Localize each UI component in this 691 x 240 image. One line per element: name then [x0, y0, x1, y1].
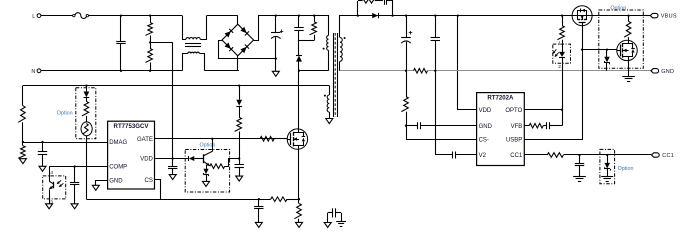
diode D-opt1 — [86, 86, 88, 92]
wire option1 to CS line — [86, 136, 88, 200]
svg-text:OPTO: OPTO — [505, 108, 522, 114]
resistor R-snub — [357, 1, 359, 16]
ground C-vdd1 — [169, 175, 176, 180]
junction dot snubber left — [357, 14, 359, 16]
junction dot opto R top — [561, 14, 563, 16]
ground C-vdd2 — [236, 176, 243, 181]
resistor R-opt1 — [86, 98, 88, 102]
capacitor C-cs — [258, 199, 260, 206]
junction dot Cout — [405, 14, 407, 16]
resistor R-sense — [298, 199, 300, 203]
bridge diode D3 (left-bottom) — [225, 43, 231, 49]
svg-text:V2: V2 — [479, 153, 487, 159]
capacitor C-bulk electrolytic — [275, 16, 277, 33]
svg-text:2: 2 — [558, 64, 561, 70]
resistor R-cs2 — [406, 71, 408, 97]
capacitor C-vdd2 — [239, 159, 241, 165]
svg-text:GND: GND — [109, 179, 123, 185]
wire startup tap — [150, 42, 173, 44]
capacitor C-v2 — [435, 154, 452, 156]
choke core — [185, 43, 201, 45]
svg-text:GND: GND — [479, 124, 493, 130]
resistor R1 upper — [150, 16, 152, 23]
junction dot zener gate — [606, 48, 608, 50]
op-amp U3 RT7202A box — [477, 93, 525, 166]
transistor Q-opt3 — [203, 154, 205, 163]
wire gate — [274, 138, 287, 140]
resistor R-dis — [627, 14, 629, 16]
choke top winding — [183, 16, 186, 40]
svg-text:CC1: CC1 — [510, 153, 523, 159]
capacitor C-o2 — [435, 16, 437, 38]
svg-text:N: N — [31, 69, 35, 75]
zener Z-opt3 — [206, 165, 208, 169]
wire L to fuse — [41, 15, 73, 17]
earth ground Z-cc1 — [601, 176, 613, 178]
transformer secondary winding — [340, 16, 342, 38]
ground R-sense — [296, 222, 303, 227]
ground bulk — [275, 59, 277, 72]
optocoupler U2 LED — [562, 44, 564, 52]
junction dot bulk cap — [275, 14, 277, 16]
svg-text:CS-: CS- — [479, 138, 489, 144]
junction dot clamp R top — [313, 14, 315, 16]
resistor R-shunt — [414, 69, 428, 74]
junction dot VDD cap1 — [172, 157, 174, 159]
op-amp U1 RT7753GCV box — [108, 121, 155, 189]
resistor R-vdd — [239, 106, 241, 117]
wire USBP — [524, 50, 582, 140]
wire CS line — [86, 199, 270, 201]
svg-text:VDD: VDD — [140, 157, 153, 163]
bridge diode D2 (top-right) — [240, 27, 246, 33]
junction dot cs2 — [405, 125, 407, 127]
transistor Q1 MOSFET — [287, 129, 307, 149]
ground opto — [49, 199, 51, 204]
wire N rail — [41, 70, 182, 72]
capacitor C-comp — [74, 167, 76, 183]
wire COMP to opto — [49, 167, 51, 176]
terminal CC1 — [652, 153, 660, 157]
wire CC1 line — [563, 154, 651, 156]
resistor R-dmag-upper — [22, 86, 24, 106]
terminal GND — [651, 69, 659, 73]
ground symbol Y-cap — [324, 223, 331, 228]
svg-text:Option: Option — [57, 111, 73, 117]
svg-text:GATE: GATE — [137, 137, 153, 143]
junction dot CS cap — [258, 198, 260, 200]
junction dot bulk cap bottom — [275, 57, 277, 59]
wire choke to bridge bottom — [205, 70, 239, 72]
junction dot clamp cap top — [298, 14, 300, 16]
capacitor C-cc1 — [579, 155, 581, 163]
wire VDD line — [155, 158, 188, 160]
terminal VBUS — [645, 15, 650, 17]
svg-text:RT7753GCV: RT7753GCV — [114, 123, 150, 130]
wire opto to OPTO pin — [562, 63, 564, 125]
svg-text:VBUS: VBUS — [661, 14, 677, 20]
svg-text:VDD: VDD — [479, 108, 492, 114]
optocoupler U2 transistor — [49, 176, 51, 181]
wire clamp RC join — [299, 40, 314, 42]
terminal L — [37, 14, 41, 18]
junction dot VDD2 feed — [457, 14, 459, 16]
resistor R-opt3 — [210, 164, 225, 169]
option box 3 — [185, 150, 229, 193]
wire bridge plus — [254, 16, 259, 41]
junction dot R1 bottom — [149, 70, 151, 72]
resistor R-cc1 — [547, 153, 563, 158]
wire bridge minus — [219, 41, 276, 59]
earth ground C-cc1 — [573, 176, 586, 178]
option box 1 — [76, 88, 96, 139]
option box 4 — [599, 10, 644, 68]
wire fuse to choke — [89, 15, 183, 17]
junction dot snubber right — [391, 14, 393, 16]
junction dot C-dmag — [41, 141, 43, 143]
wire bridge top vertex — [237, 16, 239, 24]
wire switch node — [299, 70, 329, 72]
svg-text:DMAG: DMAG — [109, 140, 127, 146]
junction dot vdd diode top — [238, 84, 240, 86]
wire CS- line — [406, 126, 408, 140]
transformer core — [333, 33, 335, 117]
junction dot source node — [298, 198, 300, 200]
wire Q3 source to earth — [628, 61, 630, 77]
ground C-cs — [255, 222, 262, 227]
capacitor C-dmag — [42, 142, 44, 152]
capacitor C-vdd1 — [168, 166, 177, 168]
svg-text:1: 1 — [558, 40, 561, 46]
bridge diode D4 (bottom-right) — [240, 47, 246, 53]
junction dot shunt left — [405, 70, 407, 72]
wire bridge bottom vertex — [237, 56, 239, 71]
optocoupler U2 transistor box — [43, 176, 66, 199]
diode D-opt3 — [188, 156, 190, 161]
transformer aux winding — [329, 86, 331, 95]
wire VFB — [524, 125, 529, 127]
svg-text:Option: Option — [618, 166, 634, 172]
wire aux rail — [23, 85, 329, 87]
junction dot Co2 — [434, 14, 436, 16]
ground dmag divider — [19, 159, 26, 164]
wire OPTO pin — [524, 109, 562, 111]
transistor Q3 discharge MOSFET — [617, 40, 637, 60]
transformer secondary dot — [344, 37, 346, 39]
svg-text:L: L — [32, 14, 35, 20]
diode D-vdd — [239, 86, 241, 100]
svg-text:CC1: CC1 — [662, 153, 674, 159]
wire U1 CS — [155, 180, 161, 200]
ground C-comp — [71, 204, 78, 209]
varistor RV-opt1 — [81, 122, 92, 136]
option box 5 — [600, 149, 615, 183]
svg-text:COMP: COMP — [109, 165, 127, 171]
bridge diode D1 (left-top) — [225, 31, 231, 37]
resistor R-csf — [271, 197, 287, 202]
transformer primary dot — [323, 48, 325, 50]
zener Z-gate — [606, 50, 608, 57]
wire source — [298, 149, 300, 199]
transformer aux dot — [324, 95, 326, 97]
junction dot shunt right — [434, 70, 436, 72]
ground Z-opt3 — [203, 181, 210, 186]
choke bottom winding — [183, 54, 188, 71]
ground U1 — [92, 185, 99, 190]
wire CC1 pin — [524, 154, 547, 156]
earth ground Q3 — [622, 76, 635, 78]
wire VDD2 feed — [458, 16, 477, 110]
resistor R-gate — [260, 137, 274, 142]
junction dot Z-cc1 — [606, 154, 608, 156]
junction dot comp cap — [73, 165, 75, 167]
diode D-rect — [372, 13, 378, 18]
wire U1 GND — [96, 181, 108, 186]
resistor R-clamp — [314, 16, 316, 22]
junction dot startup tap — [149, 41, 151, 43]
junction dot switch node — [298, 69, 300, 71]
junction dot vdd node — [238, 157, 240, 159]
wire COMP — [49, 166, 108, 168]
ground C-dmag — [39, 166, 46, 171]
svg-text:GND: GND — [661, 69, 674, 75]
junction dot dmag — [22, 141, 24, 143]
capacitor CX1 — [120, 16, 122, 41]
junction dot gate node — [581, 48, 583, 50]
terminal N — [37, 69, 41, 73]
resistor R-opto — [562, 16, 564, 26]
wire rail to VBUS — [592, 15, 645, 17]
junction dot option1 top — [85, 84, 87, 86]
svg-text:VFB: VFB — [511, 124, 523, 130]
capacitor C-Y — [328, 212, 332, 214]
junction dot X-cap top — [120, 14, 122, 16]
wire GATE line — [155, 138, 288, 140]
wire startup vertical — [172, 42, 174, 166]
wire drain — [298, 71, 300, 129]
resistor R1 lower — [146, 49, 153, 63]
svg-text:CS: CS — [145, 178, 153, 184]
capacitor C-snub — [376, 0, 383, 2]
fuse F1 — [73, 14, 75, 16]
junction dot OPTO — [561, 109, 563, 111]
wire choke to bridge top — [207, 15, 238, 17]
junction dot C-cc1 — [578, 154, 580, 156]
capacitor C-out electrolytic — [406, 16, 408, 38]
svg-text:RT7202A: RT7202A — [487, 94, 514, 101]
transformer primary winding — [327, 16, 330, 36]
resistor R-vfb — [529, 123, 543, 128]
capacitor C-gnd — [406, 125, 417, 127]
resistor R-dmag-lower — [18, 146, 25, 159]
wire gate node — [582, 26, 584, 50]
ground aux — [326, 119, 333, 124]
wire secondary top rail — [341, 15, 572, 17]
capacitor C-clamp — [298, 16, 300, 28]
junction dot Q collector — [211, 138, 213, 140]
svg-text:USBP: USBP — [506, 138, 522, 144]
wire DMAG line — [23, 142, 108, 144]
earth ground Y-cap — [341, 213, 343, 222]
svg-text:4: 4 — [50, 170, 53, 176]
zener Z-cc1 — [607, 155, 609, 163]
optocoupler U2 LED box — [553, 44, 571, 63]
wire HV rail — [258, 15, 328, 17]
junction dot R-discharge top — [149, 14, 151, 16]
wire V2 sense — [435, 71, 437, 155]
junction dot X-cap bottom — [120, 70, 122, 72]
wire secondary gnd rail — [340, 70, 414, 72]
transistor Q2 sync MOSFET — [572, 6, 592, 26]
bridge diamond — [222, 24, 254, 56]
capacitor C-vfb — [543, 125, 546, 127]
diode D-clamp — [298, 41, 300, 56]
